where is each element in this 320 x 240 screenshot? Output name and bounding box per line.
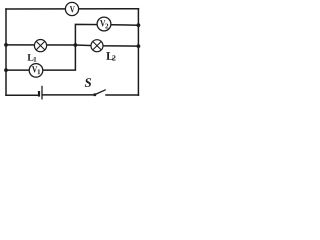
wire: left rail [5,9,7,95]
junction node: center between L1 and L2 [74,43,78,47]
junction node: left rail / lamp rail [4,43,8,47]
wire: top rail [6,8,138,10]
wire: battery to switch [43,94,94,96]
wire: V2 branch (up from center node, right to V2 and right rail) [75,24,138,45]
battery: long thin positive plate [41,86,43,100]
wire: right rail [137,9,139,96]
junction node: right rail / V2 wire [137,23,141,27]
lamp L2 [91,40,103,52]
background [0,0,144,102]
wire: middle lamp rail [6,45,138,46]
wire: switch to right rail [106,94,138,96]
voltmeter U: V1 [29,64,43,78]
voltmeter U: V (top) [65,2,78,15]
wire: bottom left to battery [6,94,38,96]
junction node: left rail / V1 branch [4,68,8,72]
switch S: contact dot [93,93,96,96]
junction node: right rail / lamp rail [137,44,141,48]
voltmeter U: V2 [97,17,111,31]
wire: V1 branch (left rail to V1, up to center node) [6,45,75,70]
switch S: lever arm [95,90,106,95]
label S [85,78,91,87]
battery: short thick negative plate [38,91,40,97]
label L2 [106,52,115,60]
label L1 [27,54,36,61]
lamp L1 [34,40,46,52]
